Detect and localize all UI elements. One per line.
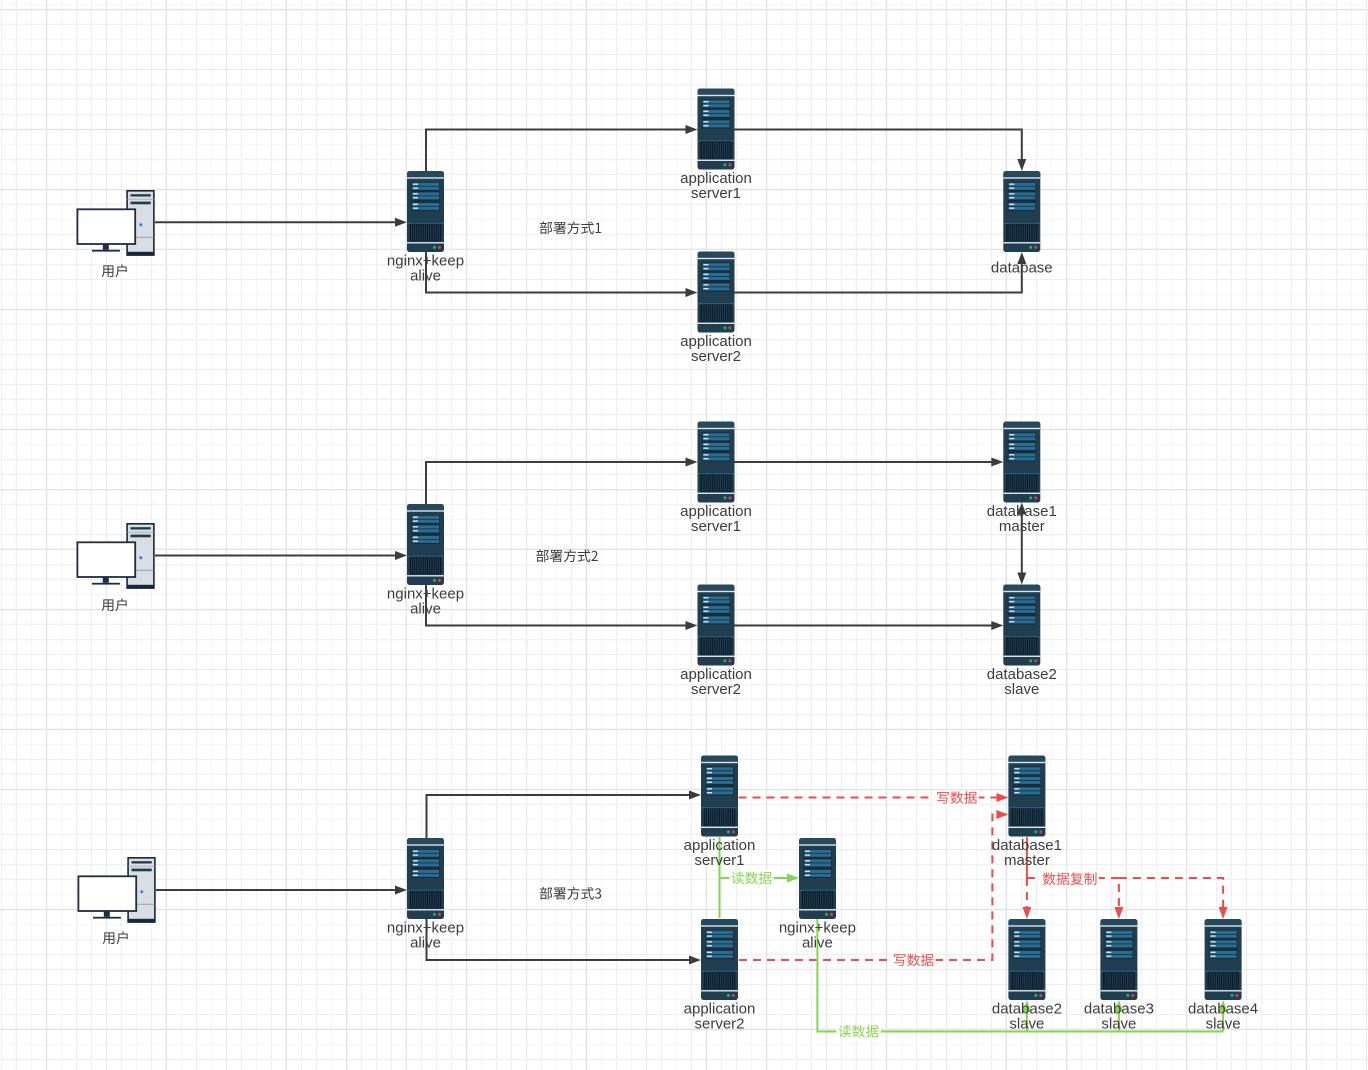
- label user3: [103, 931, 128, 944]
- arrowhead down into database2 top s2: [1017, 573, 1026, 585]
- svg-text:database: database: [991, 260, 1053, 277]
- svg-text:alive: alive: [410, 268, 441, 285]
- svg-text:slave: slave: [1009, 1016, 1044, 1033]
- edge label read data upper: [729, 871, 773, 886]
- green arrowhead into database4 bottom s3: [1219, 1000, 1228, 1012]
- arrowhead into app server1 s2: [686, 458, 698, 467]
- arrowhead into database2 left s2: [991, 621, 1003, 630]
- application server1 s2: [698, 422, 735, 503]
- red wire app server2 to database1 master write: [739, 815, 997, 961]
- application server2 s1: [698, 252, 735, 333]
- user pc 3: [78, 858, 155, 923]
- red wire database1 master to database2 slave replicate: [1026, 878, 1028, 908]
- server nginx+keepalive 3: [407, 838, 444, 919]
- svg-text:server1: server1: [694, 852, 744, 869]
- user pc 2: [77, 524, 154, 589]
- label deployment mode 1: [540, 221, 601, 234]
- label user2: [102, 598, 127, 611]
- wire app server1 to database (section1): [735, 130, 1022, 161]
- arrowhead into app server2 s2: [686, 621, 698, 630]
- wire database1 master to database2 slave double arrow (section2): [1021, 514, 1023, 574]
- wire app server2 to database2 slave (section2): [735, 625, 993, 627]
- wire user1 to nginx1: [155, 221, 396, 223]
- user pc 1: [77, 191, 154, 256]
- arrowhead into database top s1: [1017, 159, 1026, 171]
- database1 master s3: [1008, 756, 1045, 837]
- wire nginx1 to application server1 (section1): [426, 130, 687, 173]
- wire user2 to nginx2: [155, 555, 396, 557]
- arrowhead into database bottom s1: [1017, 252, 1026, 264]
- red arrowhead into database1 master left lower: [996, 810, 1008, 819]
- label deployment mode 3: [540, 887, 601, 900]
- wire nginx1 to application server2 (section1): [426, 251, 687, 293]
- application server1 s1: [698, 89, 735, 170]
- red wire database1 master to database4 slave replicate: [1119, 878, 1223, 908]
- edge label write data lower: [891, 953, 935, 968]
- wire nginx3 to application server1 (section3): [427, 795, 691, 839]
- svg-text:alive: alive: [802, 935, 833, 952]
- svg-text:server1: server1: [691, 518, 741, 535]
- database4 slave s3: [1205, 919, 1242, 1000]
- wire nginx2 to application server1 (section2): [426, 462, 687, 505]
- green arrowhead into database2 bottom s3: [1022, 1000, 1031, 1012]
- edge label data replication: [1041, 871, 1099, 886]
- arrowhead into app server2 s3: [689, 956, 701, 965]
- svg-text:slave: slave: [1101, 1016, 1136, 1033]
- svg-text:server2: server2: [691, 348, 741, 365]
- svg-text:master: master: [1004, 852, 1050, 869]
- server nginx+keepalive 2: [407, 504, 444, 585]
- green arrowhead into database3 bottom s3: [1114, 1000, 1123, 1012]
- database1 master s2: [1003, 422, 1040, 503]
- wire app server2 to database (section1): [735, 263, 1022, 293]
- red wire app server1 to database1 master write: [739, 797, 998, 799]
- svg-text:server2: server2: [694, 1016, 744, 1033]
- server nginx+keepalive middle s3: [799, 838, 836, 919]
- svg-text:alive: alive: [410, 935, 441, 952]
- arrowhead user3 to nginx3: [395, 886, 407, 895]
- database2 slave s3: [1008, 919, 1045, 1000]
- application server2 s3: [701, 919, 738, 1000]
- green wire nginx middle to database slaves read: [817, 918, 1223, 1032]
- svg-text:server2: server2: [691, 681, 741, 698]
- arrowhead into app server1 s3: [689, 791, 701, 800]
- wire nginx2 to application server2 (section2): [426, 584, 687, 626]
- svg-text:slave: slave: [1004, 681, 1039, 698]
- arrowhead user1 to nginx1: [395, 218, 407, 227]
- wire app server1 to database1 master (section2): [735, 461, 993, 463]
- svg-text:slave: slave: [1206, 1016, 1241, 1033]
- edge label write data upper: [935, 790, 979, 805]
- red arrowhead into database2 top s3: [1022, 907, 1031, 919]
- database s1: [1003, 171, 1040, 252]
- green arrowhead into nginx middle left: [787, 874, 799, 883]
- label deployment mode 2: [536, 549, 597, 562]
- wire user3 to nginx3: [156, 889, 396, 891]
- edge label read data lower: [836, 1024, 880, 1039]
- database2 slave s2: [1003, 585, 1040, 666]
- application server1 s3: [701, 756, 738, 837]
- arrowhead into app server1 s1: [686, 125, 698, 134]
- red wire database1 master to database3 slave replicate: [1027, 878, 1119, 908]
- arrowhead into app server2 s1: [686, 288, 698, 297]
- database3 slave s3: [1100, 919, 1137, 1000]
- red arrowhead into database3 top s3: [1114, 907, 1123, 919]
- green wire app server2 to nginx middle read: [719, 878, 721, 918]
- application server2 s2: [698, 585, 735, 666]
- arrowhead up into database1 bottom s2: [1017, 503, 1026, 515]
- arrowhead user2 to nginx2: [395, 551, 407, 560]
- server nginx+keepalive 1: [407, 171, 444, 252]
- red arrowhead into database1 master left upper: [996, 793, 1008, 802]
- arrowhead into database1 left s2: [991, 458, 1003, 467]
- svg-text:server1: server1: [691, 185, 741, 202]
- red arrowhead into database4 top s3: [1219, 907, 1228, 919]
- svg-text:master: master: [999, 518, 1045, 535]
- svg-text:alive: alive: [410, 601, 441, 618]
- label user1: [102, 264, 127, 277]
- green wire app server1 to nginx middle read: [720, 837, 789, 878]
- red wire solid overlap below database1 master: [1026, 837, 1028, 878]
- wire nginx3 to application server2 (section3): [427, 918, 691, 960]
